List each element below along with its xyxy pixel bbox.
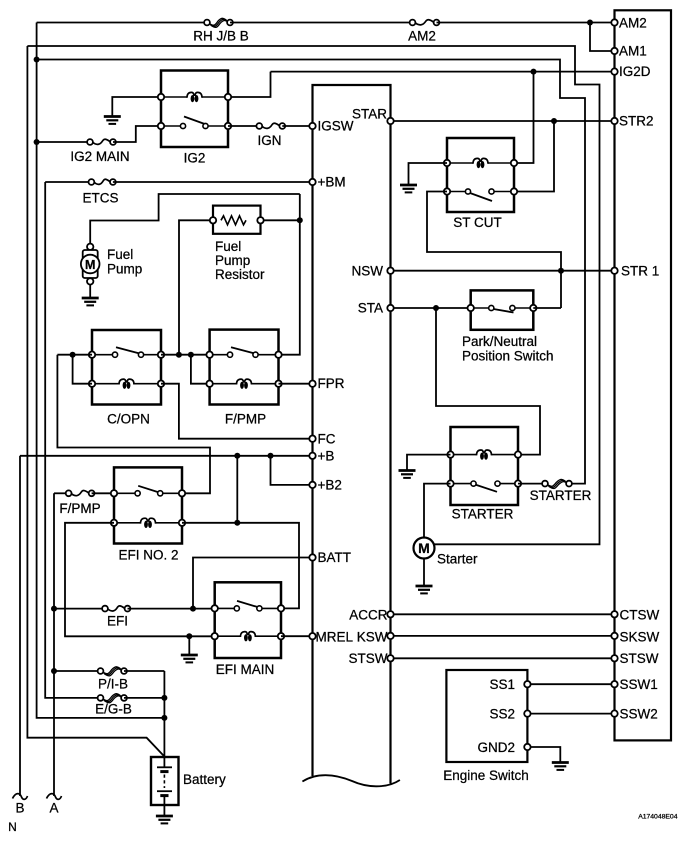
wire resistor right lead bbox=[261, 219, 300, 221]
pin NSW bbox=[387, 268, 393, 274]
svg-text:ACCR: ACCR bbox=[349, 608, 388, 623]
node bbox=[268, 453, 274, 459]
switch: Park/Neutral Position Switch bbox=[471, 290, 534, 329]
wire IG2 ground lead bbox=[112, 97, 161, 116]
relay IG2 bbox=[161, 71, 228, 148]
svg-text:STA: STA bbox=[358, 301, 383, 316]
pin CTSW bbox=[611, 611, 617, 617]
pin +B bbox=[309, 453, 315, 459]
wire to IGSW bbox=[282, 125, 312, 127]
wire STARTER switch to motor bbox=[424, 484, 451, 538]
svg-text:CTSW: CTSW bbox=[620, 608, 660, 623]
svg-text:MREL: MREL bbox=[316, 630, 354, 645]
ground (fuel pump) bbox=[82, 298, 99, 305]
wire GND2 lead bbox=[527, 747, 560, 762]
svg-text:M: M bbox=[418, 540, 430, 556]
wire +B to EFI NO.2 coil bbox=[236, 456, 238, 523]
relay EFI MAIN bbox=[215, 582, 281, 658]
pin AM2 bbox=[611, 19, 617, 25]
wire C/OPN left terminals bbox=[57, 354, 92, 356]
wire ST CUT coil to IG2D bbox=[514, 72, 534, 163]
fusible link P/I-B bbox=[102, 667, 121, 674]
fusible link RH J/B B bbox=[209, 18, 227, 25]
svg-text:STR 1: STR 1 bbox=[621, 264, 659, 279]
svg-text:Battery: Battery bbox=[183, 772, 226, 787]
wire bbox=[124, 697, 164, 699]
node bbox=[34, 57, 40, 63]
node junction AM2/AM1 bbox=[587, 20, 593, 26]
svg-text:Pump: Pump bbox=[215, 253, 250, 268]
pin MREL bbox=[309, 633, 315, 639]
node bbox=[51, 668, 57, 674]
svg-text:AM2: AM2 bbox=[408, 29, 436, 44]
wire ST CUT switch-left to NSW junction bbox=[427, 192, 561, 309]
fuse IGN bbox=[262, 123, 279, 128]
ECM main box (center, broken bottom) bbox=[313, 85, 391, 784]
pin STR1 bbox=[611, 268, 617, 274]
relay ST CUT bbox=[447, 138, 514, 212]
wire STA line bbox=[391, 307, 471, 309]
Engine Switch box bbox=[446, 670, 527, 762]
svg-text:RH J/B B: RH J/B B bbox=[193, 29, 249, 44]
svg-text:IG2: IG2 bbox=[184, 151, 206, 166]
fusible link E/G-B bbox=[102, 694, 121, 701]
wire EFI fuse line bbox=[54, 608, 105, 610]
svg-text:Fuel: Fuel bbox=[107, 247, 133, 262]
node bbox=[176, 352, 182, 358]
wire STA to STARTER coil bbox=[436, 308, 540, 455]
svg-text:NSW: NSW bbox=[352, 264, 384, 279]
svg-text:F/PMP: F/PMP bbox=[225, 412, 266, 427]
fuse EFI bbox=[108, 606, 125, 611]
node bbox=[70, 352, 76, 358]
svg-text:SSW2: SSW2 bbox=[620, 707, 658, 722]
wire EFI NO.2 coil-right riser to EFI MAIN switch bbox=[182, 523, 299, 609]
wire SS2-SSW2 bbox=[527, 713, 614, 715]
ground (battery) bbox=[156, 816, 173, 823]
svg-text:EFI: EFI bbox=[107, 614, 128, 629]
svg-text:Fuel: Fuel bbox=[215, 239, 241, 254]
svg-text:M: M bbox=[85, 258, 95, 272]
pin SKSW bbox=[611, 633, 617, 639]
svg-text:Engine Switch: Engine Switch bbox=[443, 768, 529, 783]
battery bbox=[151, 757, 179, 805]
svg-text:FPR: FPR bbox=[318, 376, 345, 391]
svg-text:A: A bbox=[49, 801, 58, 816]
svg-text:E/G-B: E/G-B bbox=[95, 702, 132, 717]
relay EFI NO.2 bbox=[114, 467, 182, 543]
svg-text:C/OPN: C/OPN bbox=[107, 412, 150, 427]
node bbox=[297, 217, 303, 223]
pin STA bbox=[387, 305, 393, 311]
wire F/PMP switch riser bbox=[279, 194, 300, 355]
node bbox=[34, 139, 40, 145]
wire BATT line bbox=[193, 558, 313, 609]
wire SS1-SSW1 bbox=[527, 683, 614, 685]
ground (ST CUT) bbox=[400, 185, 417, 192]
svg-text:+B2: +B2 bbox=[318, 478, 342, 493]
wire break B bbox=[13, 794, 28, 800]
wire AM1 stub bbox=[590, 23, 615, 52]
svg-text:Resistor: Resistor bbox=[215, 267, 265, 282]
svg-text:Position Switch: Position Switch bbox=[462, 349, 554, 364]
pin SSW1 bbox=[611, 681, 617, 687]
pin AM1 bbox=[611, 48, 617, 54]
svg-text:Park/Neutral: Park/Neutral bbox=[462, 334, 537, 349]
wire: left vertical bus x27 to battery bbox=[27, 46, 164, 757]
wire bbox=[163, 796, 165, 815]
svg-text:B: B bbox=[15, 801, 24, 816]
svg-text:IG2D: IG2D bbox=[619, 64, 651, 79]
svg-text:SS2: SS2 bbox=[489, 707, 515, 722]
svg-text:Pump: Pump bbox=[107, 262, 142, 277]
svg-text:IGN: IGN bbox=[257, 133, 281, 148]
svg-text:BATT: BATT bbox=[318, 550, 352, 565]
wire resistor left lead down to relay line bbox=[179, 220, 213, 354]
node bbox=[186, 633, 192, 639]
node bbox=[190, 606, 196, 612]
wire MREL bbox=[281, 635, 313, 637]
svg-text:STARTER: STARTER bbox=[452, 507, 514, 522]
wire IG2 coil to IG2D bbox=[228, 72, 271, 97]
wire battery riser bbox=[163, 671, 165, 767]
wire bbox=[89, 285, 91, 297]
wire: A line bbox=[53, 493, 55, 796]
wire fuel pump feed bbox=[90, 194, 300, 244]
ground (IG2) bbox=[104, 117, 121, 124]
wire bbox=[518, 483, 545, 485]
wire FPR bbox=[279, 383, 313, 385]
wire: B line bbox=[19, 456, 21, 796]
wire STR2 line bbox=[391, 120, 615, 122]
fuse IG2 MAIN bbox=[93, 139, 110, 144]
relay C/OPN bbox=[92, 330, 161, 405]
svg-text:SKSW: SKSW bbox=[620, 630, 660, 645]
wire between relays bbox=[161, 354, 210, 356]
wire EFI NO.2 coil-left to EFI MAIN coil line bbox=[65, 523, 215, 637]
svg-text:P/I-B: P/I-B bbox=[98, 677, 128, 692]
svg-text:AM2: AM2 bbox=[619, 16, 647, 31]
wire NSW - STR1 line bbox=[391, 270, 615, 272]
node bbox=[234, 453, 240, 459]
wire bbox=[423, 559, 425, 586]
relay F/PMP bbox=[210, 330, 279, 405]
wire ST CUT ground lead bbox=[409, 163, 448, 184]
wire ETCS line to +BM bbox=[45, 181, 91, 183]
node bbox=[558, 268, 564, 274]
pin STSW-ecm bbox=[387, 655, 393, 661]
node bbox=[433, 305, 439, 311]
pin ACCR bbox=[387, 611, 393, 617]
wire break A bbox=[47, 794, 62, 800]
pin IG2D bbox=[611, 68, 617, 74]
wire ACCR-CTSW bbox=[391, 613, 615, 615]
svg-text:KSW: KSW bbox=[357, 630, 388, 645]
wire F/PMP fuse line bbox=[54, 492, 69, 494]
pin STR2 bbox=[611, 118, 617, 124]
wire bbox=[92, 492, 114, 494]
ignition switch box (right) bbox=[615, 10, 672, 740]
ground (EFI MAIN) bbox=[181, 655, 198, 662]
pin STSW bbox=[611, 655, 617, 661]
wire: left vertical bus x45 to E/G-B bbox=[45, 182, 100, 698]
pin KSW bbox=[387, 633, 393, 639]
resistor: Fuel Pump Resistor bbox=[213, 206, 261, 234]
svg-text:+BM: +BM bbox=[318, 175, 346, 190]
wire ST CUT switch to STR2 bbox=[514, 121, 554, 192]
svg-text:ETCS: ETCS bbox=[82, 191, 118, 206]
node bbox=[161, 715, 167, 721]
wire bbox=[113, 181, 313, 183]
ground (GND2) bbox=[552, 763, 569, 770]
svg-text:IG2 MAIN: IG2 MAIN bbox=[70, 149, 129, 164]
node bbox=[531, 69, 537, 75]
wire P/I-B line bbox=[54, 670, 101, 672]
pin +B2 bbox=[309, 482, 315, 488]
relay STARTER bbox=[451, 427, 519, 505]
svg-text:IGSW: IGSW bbox=[318, 119, 354, 134]
wire C/OPN coil to FC line bbox=[161, 384, 313, 439]
wire bbox=[228, 125, 259, 127]
svg-text:SSW1: SSW1 bbox=[620, 677, 658, 692]
wire to AM2 pin bbox=[437, 22, 615, 24]
svg-text:+B: +B bbox=[318, 449, 335, 464]
svg-text:N: N bbox=[8, 820, 17, 834]
svg-text:Starter: Starter bbox=[437, 552, 478, 567]
svg-text:FC: FC bbox=[318, 432, 336, 447]
node bbox=[188, 352, 194, 358]
ground (starter motor) bbox=[416, 586, 433, 593]
node bbox=[551, 118, 557, 124]
svg-text:STSW: STSW bbox=[349, 651, 388, 666]
wire bbox=[113, 126, 161, 142]
wire: top feed line 1 (battery to AM2 fuse row) bbox=[37, 22, 207, 24]
pin BATT bbox=[309, 554, 315, 560]
fuse ETCS bbox=[94, 179, 110, 184]
svg-text:SS1: SS1 bbox=[489, 677, 515, 692]
pin SSW2 bbox=[611, 710, 617, 716]
svg-text:ST CUT: ST CUT bbox=[453, 215, 502, 230]
svg-text:GND2: GND2 bbox=[477, 740, 515, 755]
wire: left vertical bus x37 bbox=[37, 23, 165, 718]
fusible link STARTER bbox=[547, 479, 566, 486]
wire bbox=[230, 22, 413, 24]
pin FC bbox=[309, 436, 315, 442]
wire P/N switch right lead bbox=[533, 307, 561, 309]
fuse AM2 bbox=[415, 20, 433, 25]
wire STSW-STSW bbox=[391, 657, 615, 659]
pin +BM bbox=[309, 179, 315, 185]
fuse F/PMP bbox=[71, 491, 88, 496]
wire IG2 MAIN line bbox=[37, 141, 90, 143]
node bbox=[161, 695, 167, 701]
svg-text:A174048E04: A174048E04 bbox=[638, 814, 678, 821]
wire IG2D line bbox=[271, 71, 615, 73]
wire to F/PMP coil bbox=[191, 355, 210, 384]
wire C/OPN switch to EFI NO.2 switch bbox=[57, 355, 210, 494]
wire +B line bbox=[20, 455, 313, 457]
wire STARTER relay ground lead bbox=[407, 455, 451, 470]
svg-text:EFI NO. 2: EFI NO. 2 bbox=[119, 548, 179, 563]
svg-text:STARTER: STARTER bbox=[530, 488, 592, 503]
svg-text:STSW: STSW bbox=[620, 651, 659, 666]
motor: Starter bbox=[414, 538, 435, 559]
svg-text:F/PMP: F/PMP bbox=[59, 501, 100, 516]
pin STAR bbox=[387, 118, 393, 124]
wire KSW-SKSW bbox=[391, 635, 615, 637]
node bbox=[51, 606, 57, 612]
svg-text:AM1: AM1 bbox=[619, 44, 647, 59]
wire bbox=[124, 670, 164, 672]
svg-text:STAR: STAR bbox=[352, 107, 387, 122]
wire +B2 stub bbox=[271, 456, 313, 485]
pin FPR bbox=[309, 381, 315, 387]
wire bbox=[128, 608, 215, 610]
wire: line 3 to STARTER fuse bbox=[37, 60, 585, 484]
pin IGSW bbox=[309, 123, 315, 129]
svg-text:EFI MAIN: EFI MAIN bbox=[216, 662, 275, 677]
wire ground stem (EFI MAIN) bbox=[188, 636, 190, 654]
wire: line 2 to starter motor bbox=[27, 46, 599, 544]
svg-text:STR2: STR2 bbox=[619, 114, 654, 129]
node bbox=[234, 520, 240, 526]
motor: Fuel Pump bbox=[87, 244, 93, 250]
ground (STARTER relay) bbox=[399, 471, 416, 478]
